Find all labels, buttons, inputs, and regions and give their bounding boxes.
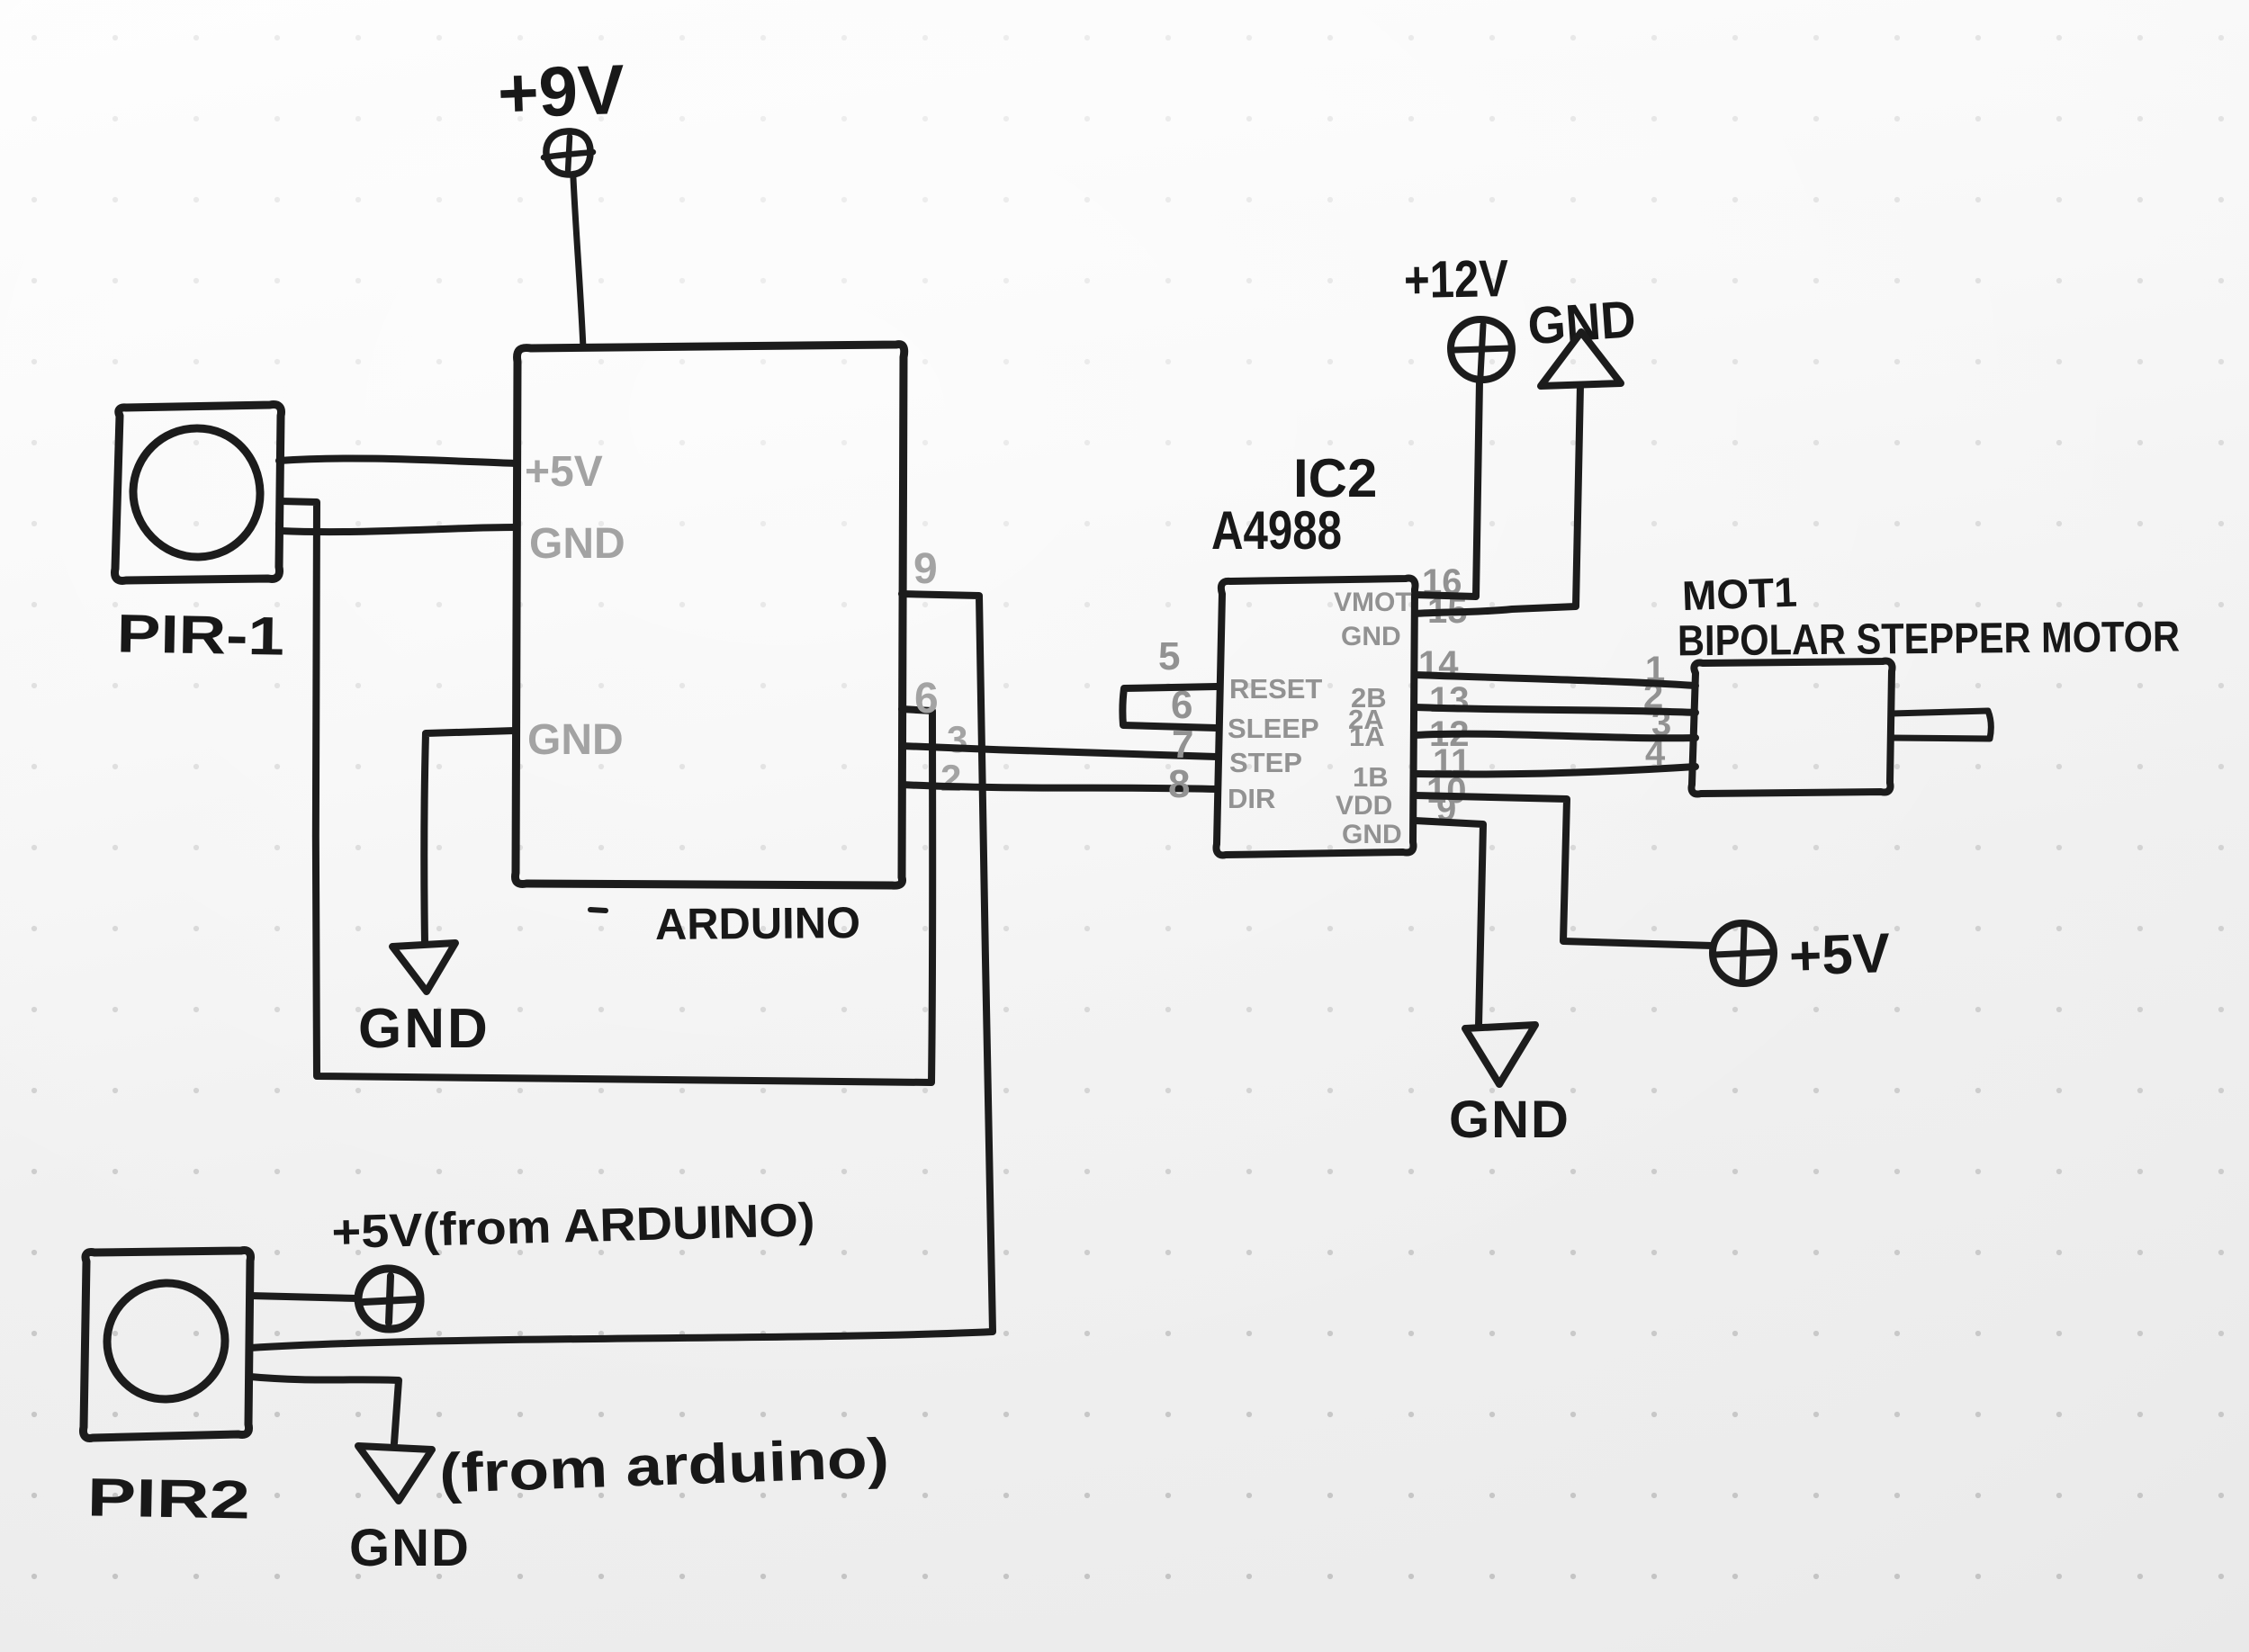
svg-text:GND: GND (527, 716, 624, 764)
wire IC GND(9) to ground (1415, 821, 1483, 1026)
wire +12V to IC pin16 VMOT (1415, 381, 1480, 597)
svg-text:+12V: +12V (1403, 249, 1508, 310)
motor shaft (1892, 711, 1991, 739)
svg-text:GND: GND (358, 998, 490, 1060)
wire top ground to IC pin15 (1415, 385, 1580, 614)
wire PIR1 OUT to Arduino pin6 (long loop) (281, 501, 932, 1082)
svg-text:GND: GND (349, 1519, 471, 1577)
svg-text:RESET: RESET (1229, 673, 1322, 705)
svg-text:MOT1: MOT1 (1681, 569, 1798, 619)
wire Arduino pin2 to IC DIR (902, 785, 1217, 789)
power +5V symbol (right) (1713, 923, 1774, 983)
svg-text:+9V: +9V (497, 49, 626, 133)
wire PIR2 GND down (250, 1377, 399, 1443)
wire IC 1A to motor 3 (1415, 734, 1696, 739)
svg-text:GND: GND (529, 520, 625, 568)
wire Arduino pin3 to IC STEP (902, 746, 1217, 757)
svg-text:VMOT: VMOT (1334, 588, 1412, 617)
svg-text:BIPOLAR STEPPER MOTOR: BIPOLAR STEPPER MOTOR (1678, 614, 2180, 666)
svg-text:1B: 1B (1353, 761, 1389, 793)
svg-text:GND: GND (1341, 622, 1401, 651)
power +9V symbol (544, 131, 593, 175)
svg-text:3: 3 (947, 718, 967, 760)
wire Arduino pin9 to PIR2 OUT (long loop) (250, 594, 993, 1348)
wire IC 1B to motor 4 (1415, 767, 1696, 775)
svg-text:PIR2: PIR2 (86, 1467, 250, 1530)
PIR2 lens circle (107, 1283, 225, 1399)
wire +9V to Arduino (573, 178, 583, 348)
svg-text:DIR: DIR (1228, 783, 1275, 814)
ground symbol (PIR2) (358, 1446, 432, 1501)
op-amp/driver IC2 A4988 box (1216, 579, 1415, 856)
svg-text:2: 2 (940, 757, 961, 799)
PIR2 sensor box (83, 1251, 250, 1439)
PIR1 sensor box (115, 405, 282, 581)
svg-text:GND: GND (1525, 290, 1637, 355)
svg-text:6: 6 (914, 675, 939, 723)
svg-text:+5V: +5V (525, 448, 603, 496)
ground symbol (below IC) (1465, 1025, 1535, 1084)
wire PIR2 VCC to +5V symbol (250, 1296, 357, 1298)
wire PIR1 GND to Arduino GND (281, 527, 515, 532)
svg-text:9: 9 (913, 545, 938, 593)
svg-text:8: 8 (1168, 762, 1190, 806)
power +9V label (497, 49, 626, 133)
svg-text:PIR-1: PIR-1 (116, 603, 284, 666)
wire IC 2B to motor 1 (1415, 675, 1696, 686)
svg-text:ARDUINO: ARDUINO (655, 899, 860, 949)
svg-text:5: 5 (1158, 634, 1180, 678)
motor MOT1 box (1691, 661, 1892, 795)
wire PIR1 VCC to Arduino +5V (279, 458, 515, 463)
svg-text:GND: GND (1449, 1091, 1570, 1149)
wire RESET-SLEEP tie (1122, 687, 1217, 728)
svg-text:A4988: A4988 (1211, 500, 1342, 561)
svg-text:1A: 1A (1349, 721, 1385, 752)
ground symbol (Arduino) (392, 943, 455, 992)
wire Arduino lower GND to ground (424, 731, 515, 943)
svg-text:STEP: STEP (1229, 747, 1302, 778)
svg-text:SLEEP: SLEEP (1228, 713, 1319, 744)
wire IC VDD to +5V (1415, 795, 1713, 946)
svg-text:VDD: VDD (1336, 791, 1392, 821)
svg-text:IC2: IC2 (1293, 448, 1377, 508)
ground symbol (top, triangle up) (1541, 332, 1621, 386)
wire IC 2A to motor 2 (1415, 707, 1696, 713)
svg-text:+5V: +5V (1788, 922, 1891, 988)
PIR1 lens circle (133, 428, 260, 557)
Arduino U1 box (516, 345, 904, 886)
power +5V symbol (PIR2) (358, 1269, 420, 1329)
svg-text:GND: GND (1342, 820, 1402, 849)
stray dash (590, 910, 606, 911)
power +12V symbol (1451, 319, 1512, 380)
